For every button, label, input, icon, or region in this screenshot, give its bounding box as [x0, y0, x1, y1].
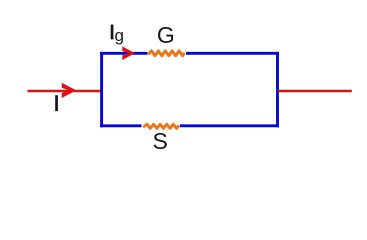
resistor G (galvanometer) zigzag	[149, 51, 184, 56]
wire: left input lead (red)	[28, 90, 103, 93]
svg-text:S: S	[153, 128, 168, 154]
arrow: galvanometer current Ig on top branch (red chevron)	[122, 46, 135, 60]
label I (total current)	[55, 95, 58, 111]
label Ig (galvanometer current)	[111, 25, 114, 40]
wire: top branch right segment (blue)	[186, 52, 279, 55]
svg-text:G: G	[157, 22, 175, 48]
wire: right output lead (red)	[278, 90, 352, 93]
resistor S (shunt) zigzag	[144, 124, 178, 128]
wire: right vertical branch of loop (blue)	[276, 52, 279, 127]
svg-text:g: g	[115, 26, 124, 45]
wire: top branch left segment (blue)	[100, 52, 147, 55]
wire: bottom branch left segment (blue)	[100, 124, 141, 127]
wire: left vertical branch of loop (blue)	[100, 52, 103, 127]
wire: bottom branch right segment (blue)	[180, 124, 279, 127]
arrow: current I direction on input wire (red chevron)	[62, 83, 77, 98]
